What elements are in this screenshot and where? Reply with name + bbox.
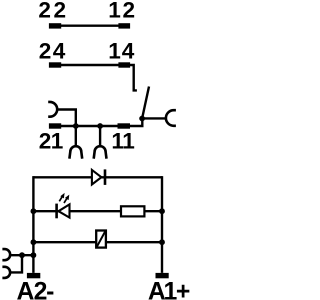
wire socket to bus [56, 110, 76, 127]
plug contact socket right [166, 110, 176, 126]
top wire with free-wheeling diode [33, 176, 162, 178]
svg-text:14: 14 [108, 39, 134, 64]
junction dot right rail LED wire [159, 208, 165, 214]
svg-text:A1+: A1+ [148, 279, 190, 300]
terminal 21 [49, 123, 61, 128]
junction dot left rail LED wire [31, 208, 37, 214]
switch common junction dot [139, 116, 145, 122]
LED arrow 1 [59, 193, 64, 201]
plug contact socket A2 lower [2, 267, 10, 278]
junction dot A2 sockets [19, 252, 25, 258]
wire A2 lower socket with elbow up [11, 255, 22, 272]
LED cathode bar [55, 204, 58, 219]
LED triangle [59, 204, 70, 217]
resistor R1 [121, 206, 144, 216]
junction dot left rail bottom wire [31, 239, 37, 245]
junction dot right rail bottom wire [159, 239, 165, 245]
plug contact socket A2 upper [2, 249, 10, 260]
junction dot bus left [73, 123, 79, 129]
relay switch blade [142, 87, 149, 119]
wire A2 sockets to rail [11, 254, 33, 256]
plug contact socket upper-left [48, 102, 57, 117]
terminal 14 [118, 62, 130, 67]
bottom wire coil rung [33, 241, 162, 243]
relay coil K1 [96, 231, 106, 248]
plug contact arch right [94, 146, 107, 159]
terminal 12 [118, 23, 130, 28]
wire switch node to right socket [142, 117, 166, 119]
LED arrow 2 [64, 195, 69, 203]
terminal 11 [118, 123, 131, 128]
coil slash [97, 231, 105, 246]
svg-text:21: 21 [39, 129, 64, 154]
terminal A2 [27, 273, 40, 278]
plug contact arch left [69, 146, 82, 159]
terminal A1 [156, 273, 169, 278]
junction dot bus right [97, 123, 103, 129]
wire contact row 24 to 14 with elbow down to switch fixed contact and tick [60, 65, 137, 90]
coil circuit right rail to A1 [161, 176, 163, 273]
wire contact row 22 to 12 [60, 25, 120, 27]
diode V1 triangle [92, 170, 102, 185]
svg-text:11: 11 [111, 129, 134, 154]
svg-text:12: 12 [108, 0, 135, 23]
junction dot A2 rail [31, 252, 37, 258]
plug contact stem left [75, 126, 77, 146]
svg-text:22: 22 [38, 0, 66, 23]
plug contact stem right [99, 126, 101, 146]
svg-text:24: 24 [39, 39, 66, 64]
svg-text:A2-: A2- [17, 279, 55, 300]
bus wire 21-11 with elbow up to switch node [60, 119, 142, 127]
middle wire with LED and resistor [33, 210, 162, 212]
diode V1 cathode bar [104, 169, 107, 185]
terminal 22 [49, 23, 61, 28]
relay module circuit schematic [0, 0, 193, 300]
coil circuit left rail to A2 [32, 176, 34, 273]
terminal 24 [49, 62, 61, 67]
